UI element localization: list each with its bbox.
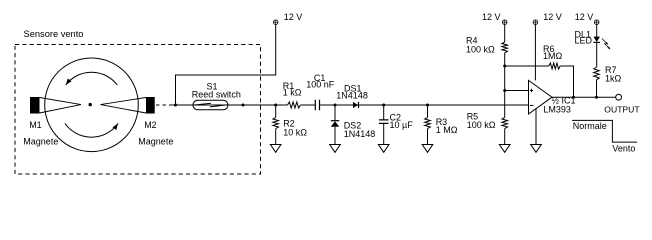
- magnet M1: [30, 97, 40, 114]
- resistor R2: [275, 105, 277, 117]
- LED DL1: [596, 24, 598, 36]
- svg-text:Vento: Vento: [612, 144, 635, 154]
- diode DS2: [334, 105, 336, 120]
- ground DS2: [330, 145, 341, 153]
- node divider-R6: [503, 65, 506, 68]
- reed switch S1: [193, 100, 228, 110]
- svg-text:12 V: 12 V: [284, 12, 303, 22]
- magnet-reed dashed link: [156, 104, 173, 106]
- node R3: [426, 104, 429, 107]
- capacitor C2: [383, 105, 385, 120]
- resistor R6: [505, 65, 549, 67]
- wire main signal: [173, 104, 529, 106]
- diode DS1: [353, 102, 358, 108]
- svg-text:M1: M1: [29, 120, 42, 130]
- node output-R6: [572, 96, 575, 99]
- resistor R4: [504, 24, 506, 42]
- svg-text:10 kΩ: 10 kΩ: [283, 127, 307, 137]
- svg-text:Normale: Normale: [573, 121, 607, 131]
- svg-text:LM393: LM393: [543, 105, 571, 115]
- resistor R7: [594, 67, 600, 80]
- supply +12V R4: [502, 20, 507, 25]
- magnet M2: [146, 97, 155, 114]
- svg-text:1N4148: 1N4148: [344, 129, 376, 139]
- output terminal: [616, 94, 622, 100]
- svg-text:Magnete: Magnete: [138, 137, 173, 147]
- svg-text:Sensore vento: Sensore vento: [24, 29, 84, 39]
- svg-text:Reed switch: Reed switch: [192, 89, 241, 99]
- wire divider: [504, 66, 506, 91]
- svg-text:10 µF: 10 µF: [390, 120, 414, 130]
- node C2: [382, 104, 385, 107]
- supply +12V IC1: [533, 20, 538, 25]
- svg-text:100 nF: 100 nF: [306, 79, 335, 89]
- node divider-ref: [503, 89, 506, 92]
- svg-text:OUTPUT: OUTPUT: [604, 105, 640, 115]
- output waveform: [572, 120, 637, 142]
- ground R2: [270, 145, 281, 153]
- wire reed 12V feed: [176, 24, 276, 105]
- svg-text:12 V: 12 V: [575, 12, 594, 22]
- svg-text:100 kΩ: 100 kΩ: [467, 120, 496, 130]
- rotation arrow top: [66, 72, 118, 85]
- svg-text:LED: LED: [575, 36, 593, 46]
- rotation arrow bottom: [65, 123, 118, 137]
- LED light arrows: [602, 39, 608, 48]
- svg-text:1kΩ: 1kΩ: [605, 74, 622, 84]
- ground C2: [378, 145, 389, 153]
- svg-text:12 V: 12 V: [543, 12, 562, 22]
- ground R3: [422, 145, 433, 153]
- svg-text:1N4148: 1N4148: [336, 91, 368, 101]
- wire output: [552, 96, 616, 98]
- wire IC1 V+: [534, 24, 536, 80]
- rotating disc: [45, 58, 139, 152]
- wire ref to +input: [505, 90, 529, 92]
- node R2: [274, 104, 277, 107]
- svg-text:M2: M2: [144, 120, 157, 130]
- ground R5: [499, 145, 510, 153]
- wire ref to R5: [504, 91, 506, 118]
- supply +12V S1: [273, 20, 278, 25]
- ground IC1: [531, 145, 542, 153]
- supply +12V LED: [594, 20, 599, 25]
- node output-R7: [595, 96, 598, 99]
- svg-text:12 V: 12 V: [482, 12, 501, 22]
- svg-text:1 kΩ: 1 kΩ: [283, 88, 302, 98]
- svg-text:1MΩ: 1MΩ: [543, 51, 563, 61]
- resistor R5: [502, 117, 508, 128]
- resistor R1: [288, 102, 301, 108]
- sensor enclosure (dashed box): [15, 45, 261, 175]
- resistor R3: [427, 105, 429, 117]
- capacitor C1: [315, 100, 319, 111]
- node reed right: [242, 104, 245, 107]
- svg-text:1 MΩ: 1 MΩ: [436, 125, 458, 135]
- node reed left: [174, 104, 177, 107]
- svg-text:100 kΩ: 100 kΩ: [466, 44, 495, 54]
- svg-text:Magnete: Magnete: [23, 137, 58, 147]
- op-amp U1 (comparator LM393): [529, 80, 553, 114]
- wire IC1 V-: [535, 109, 537, 145]
- node pump: [334, 104, 337, 107]
- disc axle dot: [89, 103, 92, 106]
